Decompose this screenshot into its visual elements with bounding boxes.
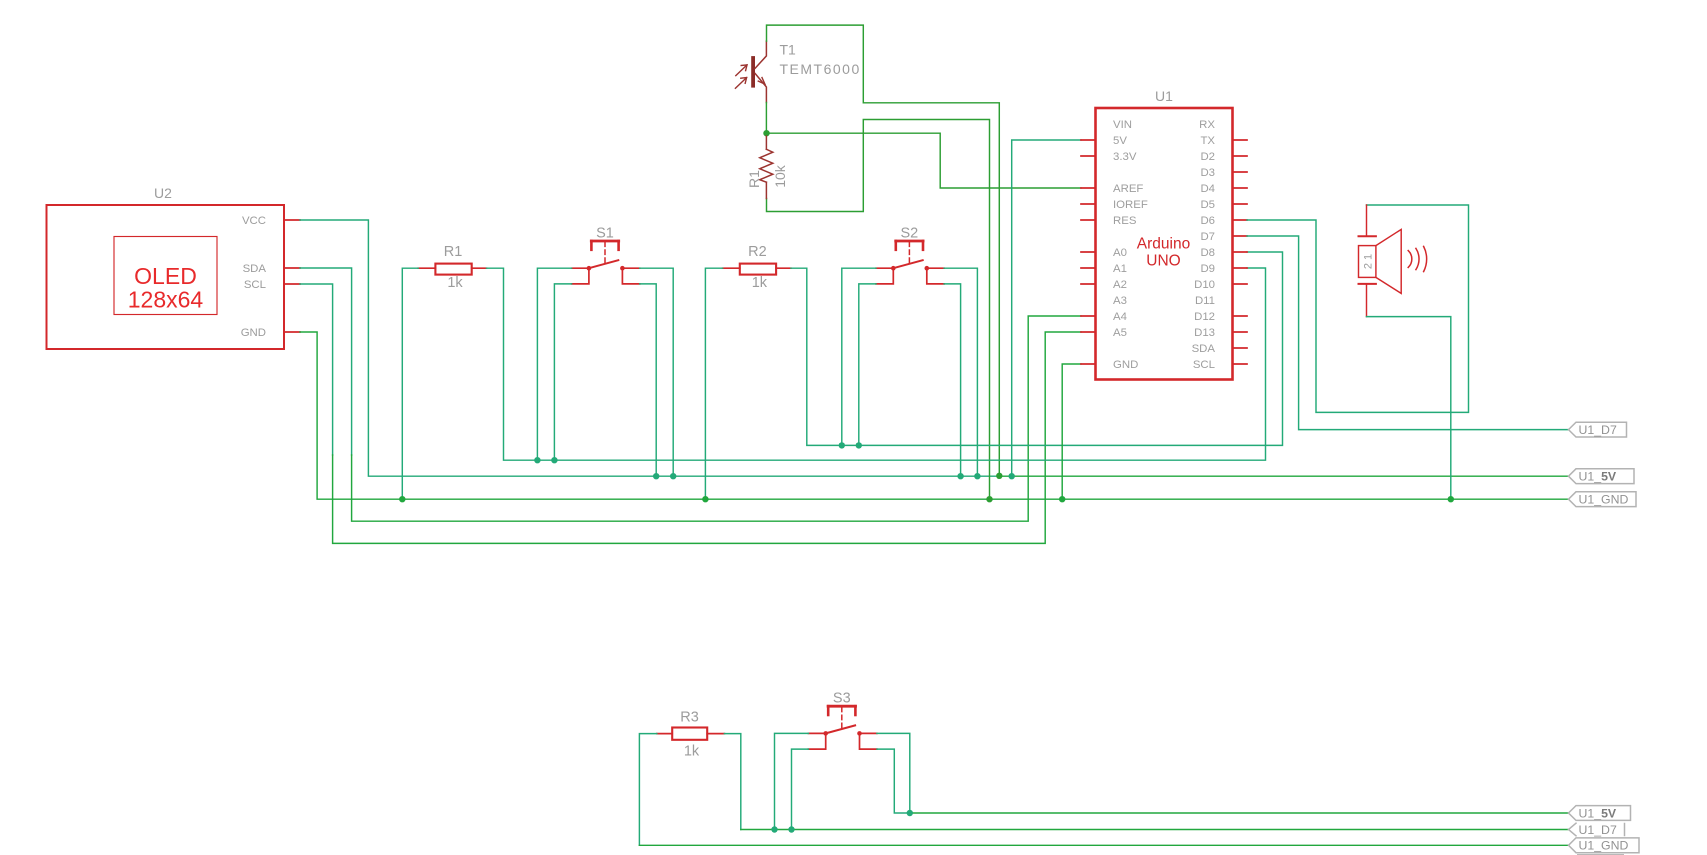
junction node S2 inner-right on 5V bus — [957, 473, 963, 479]
svg-text:RX: RX — [1199, 119, 1215, 131]
svg-text:UNO: UNO — [1146, 253, 1180, 270]
switch S1 — [572, 241, 640, 284]
svg-text:U1_D7: U1_D7 — [1579, 423, 1617, 437]
svg-text:D5: D5 — [1200, 199, 1215, 211]
IC U1 Arduino UNO — [1096, 108, 1233, 380]
pin stub U2 SDA — [284, 267, 300, 269]
wire net GND: R1 left lead down to GND bus — [402, 268, 418, 499]
svg-text:D7: D7 — [1200, 231, 1215, 243]
svg-text:U1_GND: U1_GND — [1579, 493, 1629, 507]
net flag U1_D7 (top right) — [1569, 422, 1627, 437]
svg-text:D2: D2 — [1200, 151, 1215, 163]
svg-text:Arduino: Arduino — [1137, 236, 1190, 253]
net flag U1_5V (bottom right) — [1569, 806, 1631, 821]
svg-text:D8: D8 — [1200, 247, 1215, 259]
svg-text:D9: D9 — [1200, 263, 1215, 275]
wire net D7: U1 D7 to flag U1_D7 — [1247, 236, 1569, 430]
svg-text:A3: A3 — [1113, 295, 1127, 307]
wire net D8: R2 right lead, bus row, up to U1 D8 — [791, 252, 1283, 445]
svg-text:1k: 1k — [684, 744, 700, 760]
svg-text:VIN: VIN — [1113, 119, 1132, 131]
svg-text:SCL: SCL — [244, 279, 266, 291]
junction node T1 collector on 5V bus — [996, 473, 1002, 479]
svg-text:SDA: SDA — [243, 263, 267, 275]
svg-text:2 1: 2 1 — [1363, 254, 1375, 269]
svg-text:OLED: OLED — [134, 263, 197, 289]
svg-text:D12: D12 — [1194, 311, 1215, 323]
wire net GND: R1 bottom loop to GND bus junction — [767, 120, 990, 500]
svg-text:TEMT6000: TEMT6000 — [780, 61, 861, 77]
speaker LS1 — [1359, 205, 1427, 317]
svg-text:3.3V: 3.3V — [1113, 151, 1137, 163]
svg-text:D3: D3 — [1200, 167, 1215, 179]
pin labels U1 right column — [1192, 119, 1216, 371]
svg-text:AREF: AREF — [1113, 183, 1143, 195]
wire net SDA: U2 SDA to bus to U1 A4 — [300, 268, 352, 455]
wire net 5V: S1 outer-right down to 5V bus — [640, 268, 674, 476]
junction node S1 inner-left on D9 bus — [551, 457, 557, 463]
wire net GND: U1 GND pin to GND bus — [1062, 364, 1081, 499]
junction node S1 outer-left on D9 bus — [534, 457, 540, 463]
wire net D9: S1 inner-left down to bus row — [554, 284, 571, 460]
wire net D9: S1 outer-left down to bus row — [537, 268, 571, 460]
svg-text:R1: R1 — [444, 244, 463, 260]
junction node S3 inner-left on D7 line — [788, 826, 794, 832]
svg-text:SDA: SDA — [1192, 343, 1216, 355]
wire net 5V: T1 collector loop to 5V bus junction — [767, 25, 1000, 476]
junction node S3 outer-left on D7 line — [771, 826, 777, 832]
svg-text:TX: TX — [1200, 135, 1215, 147]
svg-text:A5: A5 — [1113, 327, 1127, 339]
svg-text:10k: 10k — [772, 164, 788, 188]
svg-text:T1: T1 — [780, 42, 797, 58]
svg-text:S2: S2 — [901, 226, 919, 242]
wire net 5V: S2 inner-right down to 5V bus — [944, 284, 961, 476]
svg-text:GND: GND — [241, 327, 266, 339]
resistor R3 1k (horizontal, bottom section) — [657, 728, 725, 740]
svg-text:5V: 5V — [1113, 135, 1127, 147]
junction node U1 GND wire on GND bus — [1059, 496, 1065, 502]
IC U2 OLED 128x64 display module — [47, 205, 285, 349]
pin stub U2 VCC — [284, 219, 300, 221]
junction node GND loop on GND bus — [986, 496, 992, 502]
wire net D9: R1 right lead, bus row, up to U1 D9 — [487, 268, 1266, 460]
wire net SCL: U2 SCL to bus to U1 A5 — [300, 284, 333, 455]
wire net 5V: S2 outer-right down to 5V bus — [944, 268, 977, 476]
junction node U1 5V wire on 5V bus — [1009, 473, 1015, 479]
net flag U1_GND (bottom right) — [1569, 838, 1640, 853]
wire net 5V: S1 inner-right down to 5V bus — [640, 284, 657, 476]
svg-text:R3: R3 — [680, 710, 699, 726]
switch S3 — [808, 706, 877, 749]
wire net GND: R3 left lead down to bottom GND line to flag U1_GND — [639, 734, 656, 846]
net flag U1_D7 (bottom right, open style) — [1569, 823, 1625, 837]
pin labels U1 left column — [1113, 119, 1148, 371]
wire net GND: R2 left lead down to GND bus — [705, 268, 722, 499]
svg-text:1k: 1k — [447, 275, 463, 291]
junction node S1 inner-right on 5V bus — [653, 473, 659, 479]
svg-text:R1: R1 — [746, 170, 762, 188]
wire net D7: S3 inner-left down to bottom D7 line — [792, 749, 809, 829]
svg-text:U1: U1 — [1155, 88, 1173, 104]
switch S2 — [876, 241, 944, 284]
net flag U1_GND (right) — [1569, 492, 1637, 507]
svg-text:U1_5V: U1_5V — [1579, 470, 1617, 484]
transistor T1 TEMT6000 phototransistor — [735, 41, 766, 102]
resistor R2 1k (horizontal) — [723, 264, 791, 275]
svg-text:SCL: SCL — [1193, 359, 1215, 371]
junction node T1 emitter / R1 / AREF — [763, 130, 769, 136]
pin stubs U1 right side — [1233, 140, 1248, 364]
svg-text:D11: D11 — [1195, 295, 1215, 307]
wire net 5V: bus right portion to flag U1_5V — [1000, 475, 1569, 477]
svg-text:U2: U2 — [154, 185, 172, 201]
junction node R2-left on GND bus — [702, 496, 708, 502]
wire net D6: U1 D6 to speaker plus terminal — [1247, 205, 1469, 412]
svg-text:U1_GND: U1_GND — [1579, 839, 1629, 853]
svg-text:D10: D10 — [1194, 279, 1215, 291]
wire net D8: S2 inner-left down to bus row — [859, 284, 876, 446]
net flag partially cut at bottom edge — [1577, 854, 1624, 855]
svg-text:R2: R2 — [748, 244, 767, 260]
svg-text:S3: S3 — [833, 691, 851, 707]
wire net 5V: S3 inner-right down to bottom 5V line — [877, 749, 910, 813]
svg-text:U1_D7: U1_D7 — [1579, 823, 1617, 837]
wire net D7: S3 outer-left down to bottom D7 line — [775, 733, 809, 829]
wire net GND: speaker minus terminal down to GND bus — [1367, 317, 1451, 500]
svg-text:RES: RES — [1113, 215, 1137, 227]
junction node R1-left on GND bus — [399, 496, 405, 502]
pin stub U2 GND — [284, 331, 300, 333]
net flag U1_5V (right) — [1569, 469, 1635, 484]
svg-text:128x64: 128x64 — [128, 287, 204, 313]
resistor R1 1k (horizontal) — [418, 264, 486, 275]
svg-text:D4: D4 — [1200, 183, 1215, 195]
svg-text:1k: 1k — [752, 275, 768, 291]
junction node S2 inner-left on D8 bus — [856, 442, 862, 448]
junction node S3 right on bottom 5V line — [907, 810, 913, 816]
svg-text:VCC: VCC — [242, 215, 266, 227]
svg-text:D6: D6 — [1200, 215, 1215, 227]
pin stubs U1 left side — [1081, 140, 1096, 364]
wire net GND: U2 GND to GND bus to flag U1_GND — [300, 332, 1569, 499]
wire net SIG: T1 emitter down to junction — [765, 103, 767, 134]
svg-text:A2: A2 — [1113, 279, 1127, 291]
wire net D7: R3 right lead down to bottom D7 line to flag — [724, 734, 740, 830]
wire net D8: S2 outer-left down to bus row — [842, 268, 876, 445]
wire net 5V: S3 outer-right down to bottom 5V line to flag — [877, 733, 910, 813]
junction node S1 outer-right on 5V bus — [670, 473, 676, 479]
svg-text:A4: A4 — [1113, 311, 1127, 323]
svg-text:A0: A0 — [1113, 247, 1127, 259]
junction node speaker return on GND bus — [1448, 496, 1454, 502]
wire net SIG: T1 emitter / R1 top junction to U1 AREF — [767, 133, 1082, 188]
svg-text:GND: GND — [1113, 359, 1138, 371]
wire net 5V: U2 VCC to 5V bus — [300, 220, 1000, 476]
svg-text:U1_5V: U1_5V — [1579, 806, 1617, 820]
svg-text:IOREF: IOREF — [1113, 199, 1148, 211]
resistor R1 10k (vertical) — [760, 136, 773, 199]
svg-text:A1: A1 — [1113, 263, 1127, 275]
junction node S2 outer-right on 5V bus — [974, 473, 980, 479]
svg-text:D13: D13 — [1194, 327, 1215, 339]
pin stub U2 SCL — [284, 283, 300, 285]
wire net 5V: U1 5V pin to 5V bus — [1012, 140, 1081, 476]
junction node S2 outer-left on D8 bus — [839, 442, 845, 448]
svg-text:S1: S1 — [596, 226, 614, 242]
